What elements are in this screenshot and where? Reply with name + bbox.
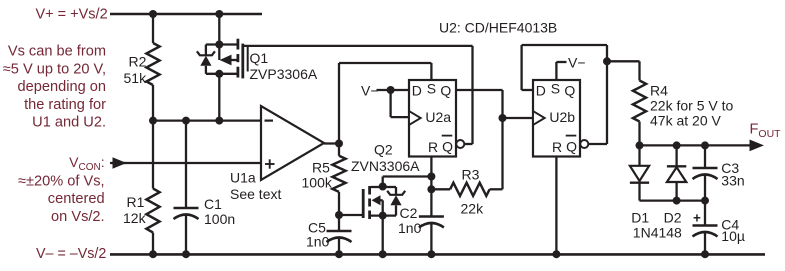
wire R1 bottom to V- rail <box>152 233 154 255</box>
junction dot Q1 source tap <box>215 41 223 49</box>
capacitor C3 <box>693 168 718 179</box>
svg-text:Q2: Q2 <box>374 142 393 158</box>
junction dot C2 / V- rail <box>427 250 435 258</box>
diode D2 <box>667 145 686 200</box>
label 47k at 20 V <box>650 112 721 128</box>
label V- for U2a <box>361 83 379 99</box>
label C2 <box>400 205 418 221</box>
svg-text:Q: Q <box>442 139 453 155</box>
junction dot C1 / V- rail <box>182 250 190 258</box>
junction dot Q2 drain <box>379 183 387 191</box>
wire C2 bottom to V- rail <box>430 224 432 255</box>
wire U2a R pin to timing node <box>430 157 432 177</box>
flip-flop U2b <box>533 80 588 157</box>
power rail V+ net <box>110 13 262 16</box>
wire Vcon input to op-amp + input <box>110 157 261 168</box>
wire C5 bottom to V- rail <box>338 238 340 254</box>
svg-text:12k: 12k <box>123 210 147 226</box>
wire node A to R1 <box>152 121 154 189</box>
wire clamp node D1-D2-C3-C4 <box>640 199 706 201</box>
svg-text:on Vs/2.: on Vs/2. <box>51 209 105 225</box>
label 12k <box>123 210 147 226</box>
resistor R2 <box>146 43 159 85</box>
wire U2b R to V- rail <box>555 157 557 255</box>
label C1 <box>204 196 222 212</box>
label C4 plus sign <box>693 211 701 226</box>
svg-text:U2: CD/HEF4013B: U2: CD/HEF4013B <box>439 20 557 36</box>
svg-text:depending on: depending on <box>18 79 106 95</box>
wire R2 bottom to node A <box>152 85 154 121</box>
wire op-amp output <box>324 142 339 144</box>
svg-text:Q: Q <box>440 83 451 99</box>
svg-text:V−: V− <box>568 55 586 71</box>
wire R4 top <box>607 61 640 80</box>
wire C4 bottom to V- rail <box>704 232 706 254</box>
svg-text:1N4148: 1N4148 <box>633 225 682 241</box>
svg-text:U1 and U2.: U1 and U2. <box>32 115 106 131</box>
resistor R5 <box>332 156 345 192</box>
junction dot R4 branch <box>603 57 611 65</box>
svg-text:C2: C2 <box>400 205 418 221</box>
svg-text:22k: 22k <box>461 201 485 217</box>
label R5 <box>312 160 330 176</box>
junction dot R1 / V- rail <box>149 250 157 258</box>
svg-text:D1: D1 <box>631 210 649 226</box>
wire node A to C1 <box>185 121 187 208</box>
label Q1 <box>250 50 269 66</box>
label 100k <box>302 175 333 191</box>
svg-text:U2b: U2b <box>549 109 575 125</box>
junction dot clamp / C3-C4 <box>701 197 709 205</box>
svg-text:+: + <box>693 211 701 226</box>
wire U2a D and CLK tied to V- <box>377 90 410 117</box>
label Vcon input note <box>18 154 105 225</box>
svg-text:See text: See text <box>230 186 281 202</box>
diode D1 <box>630 145 649 200</box>
junction dot C5 / V- rail <box>335 250 343 258</box>
label U2 title <box>439 20 557 36</box>
transistor Q2 body <box>363 186 396 219</box>
label U1a <box>230 170 256 186</box>
wire R3 left <box>431 188 450 190</box>
svg-text:1n0: 1n0 <box>398 220 422 236</box>
wire timing node to Q2 drain <box>383 175 432 177</box>
svg-text:Vs can be from: Vs can be from <box>8 44 106 60</box>
junction dot U2b clock branch <box>499 114 507 122</box>
svg-text:R3: R3 <box>462 167 480 183</box>
label 22k for 5 V to <box>650 98 733 114</box>
label D2 <box>664 210 682 226</box>
junction dot output / C3 <box>701 141 709 149</box>
junction dot Q2 source / V- rail <box>379 250 387 258</box>
junction dot C4 / V- rail <box>701 250 709 258</box>
svg-text:centered: centered <box>48 191 105 207</box>
label 1N4148 <box>633 225 682 241</box>
label callout bracket Q1 <box>247 46 249 72</box>
svg-text:51k: 51k <box>124 70 148 86</box>
wire U2b Qbar feedback to D <box>522 45 607 144</box>
svg-text:33n: 33n <box>721 173 744 189</box>
junction dot Q2 source <box>379 212 387 220</box>
svg-text:V+ = +Vs/2: V+ = +Vs/2 <box>36 7 108 23</box>
svg-text:V– = –Vs/2: V– = –Vs/2 <box>36 246 106 262</box>
wire C1 bottom to V- rail <box>185 215 187 254</box>
svg-text:S: S <box>427 81 436 97</box>
label R4 <box>650 83 668 99</box>
wire U2a Qbar to Q1 gate riser <box>464 46 472 144</box>
junction dot node A / C1 <box>182 117 190 125</box>
svg-text:C1: C1 <box>204 196 222 212</box>
capacitor C5 <box>327 231 352 242</box>
wire Q2 gate <box>339 214 362 216</box>
flip-flop U2a <box>409 80 464 157</box>
svg-text:10µ: 10µ <box>721 228 745 244</box>
svg-text:47k at 20 V: 47k at 20 V <box>650 112 721 128</box>
label ZVP3306A <box>250 66 318 82</box>
label 22k R3 <box>461 201 485 217</box>
junction dot timing node / R3 <box>427 185 435 193</box>
label R1 <box>127 194 145 210</box>
svg-text:R: R <box>428 139 438 155</box>
svg-text:R2: R2 <box>129 54 147 70</box>
label R3 <box>462 167 480 183</box>
capacitor C2 <box>419 217 444 228</box>
label 1n0 C2 <box>398 220 422 236</box>
wire R3 right to clock node <box>490 188 503 190</box>
junction dot node A / R1 <box>149 117 157 125</box>
junction dot node A / Q1 drain <box>215 117 223 125</box>
svg-text:Q: Q <box>564 83 575 99</box>
wire V+ rail to R2 <box>152 14 154 43</box>
label C4 <box>721 217 739 233</box>
transistor Q1 body <box>206 39 243 79</box>
label C3 <box>721 160 739 176</box>
svg-text:D2: D2 <box>664 210 682 226</box>
wire U2b S to V- <box>556 62 566 80</box>
junction dot Q1 drain tap <box>215 70 223 78</box>
wire timing node down to C2 <box>430 177 432 217</box>
junction dot output / D2 <box>673 141 681 149</box>
junction dot V+ rail / R2 <box>149 10 157 18</box>
wire R4 bottom to output node <box>638 122 640 146</box>
resistor R3 <box>450 183 490 196</box>
svg-text:D: D <box>412 83 422 99</box>
junction dot U2b R / V- rail <box>552 250 560 258</box>
label 51k <box>124 70 148 86</box>
wire output node Fout <box>640 140 765 152</box>
svg-text:1n0: 1n0 <box>306 234 330 250</box>
svg-text:ZVN3306A: ZVN3306A <box>351 158 420 174</box>
wire V+ rail to Q1 source <box>218 14 220 45</box>
label Q2 <box>374 142 393 158</box>
junction dot output / D1 <box>636 141 644 149</box>
wire C3 bottom to clamp node <box>704 175 706 201</box>
wire Q2 source to V- rail <box>382 216 384 255</box>
svg-text:ZVP3306A: ZVP3306A <box>250 66 318 82</box>
wire node A to op-amp - input <box>153 119 261 121</box>
svg-text:U1a: U1a <box>230 170 256 186</box>
label ZVN3306A <box>351 158 420 174</box>
junction dot clamp / D2 <box>673 197 681 205</box>
label R2 <box>129 54 147 70</box>
svg-text:≈±20% of Vs,: ≈±20% of Vs, <box>18 173 105 189</box>
wire Q1 drain to node A <box>218 74 220 121</box>
label C5 <box>308 220 326 236</box>
annotation note Vs range <box>3 44 106 131</box>
svg-text:R5: R5 <box>312 160 330 176</box>
junction dot timing node / Q2 drain branch <box>427 173 435 181</box>
power rail V- net <box>110 253 765 256</box>
capacitor C1 <box>174 208 199 219</box>
op-amp U1a <box>261 106 324 180</box>
svg-text:100n: 100n <box>204 211 235 227</box>
resistor R4 <box>633 81 646 122</box>
wire Q2 drain to timing node <box>382 177 384 188</box>
label See text <box>230 186 281 202</box>
wire R5 bottom to Q2 gate node <box>338 192 340 231</box>
zener gate-protection diode inside Q1 <box>197 45 215 74</box>
junction dot U2a D/CLK tie <box>387 86 395 94</box>
label V- = -Vs/2 <box>36 246 106 262</box>
junction dot Q2 gate node <box>335 211 343 219</box>
svg-text:S: S <box>551 81 560 97</box>
wire output node to C3 <box>704 145 706 168</box>
wire op-amp output up to U2a S input <box>339 63 431 144</box>
label 1n0 C5 <box>306 234 330 250</box>
svg-text:Q1: Q1 <box>250 50 269 66</box>
label 33n <box>721 173 744 189</box>
label 100n <box>204 211 235 227</box>
wire clamp node to C4 <box>704 201 706 226</box>
svg-text:U2a: U2a <box>425 109 451 125</box>
resistor R1 <box>146 189 159 233</box>
svg-text:V−: V− <box>361 83 379 99</box>
wire U2a Q to U2b clock <box>456 90 533 189</box>
svg-text:R1: R1 <box>127 194 145 210</box>
wire Q1 gate from U2a Qbar <box>243 45 473 47</box>
svg-text:D: D <box>536 83 546 99</box>
svg-text:Q: Q <box>566 139 577 155</box>
svg-text:100k: 100k <box>302 175 333 191</box>
label D1 <box>631 210 649 226</box>
junction dot V+ rail / Q1 source <box>215 10 223 18</box>
wire output node to R5 <box>338 144 340 156</box>
label V- for U2b <box>568 55 586 71</box>
svg-text:R4: R4 <box>650 83 668 99</box>
label Fout <box>750 122 782 141</box>
svg-text:the rating for: the rating for <box>24 97 106 113</box>
zener gate-protection diode inside Q2 <box>383 187 406 216</box>
capacitor C4 <box>693 226 718 237</box>
label 10u <box>721 228 745 244</box>
svg-text:22k for 5 V to: 22k for 5 V to <box>650 98 733 114</box>
svg-text:R: R <box>552 139 562 155</box>
label V+ = +Vs/2 <box>36 7 108 23</box>
svg-text:≈5 V up to 20 V,: ≈5 V up to 20 V, <box>3 61 106 77</box>
junction dot op-amp output / R5 <box>335 140 343 148</box>
